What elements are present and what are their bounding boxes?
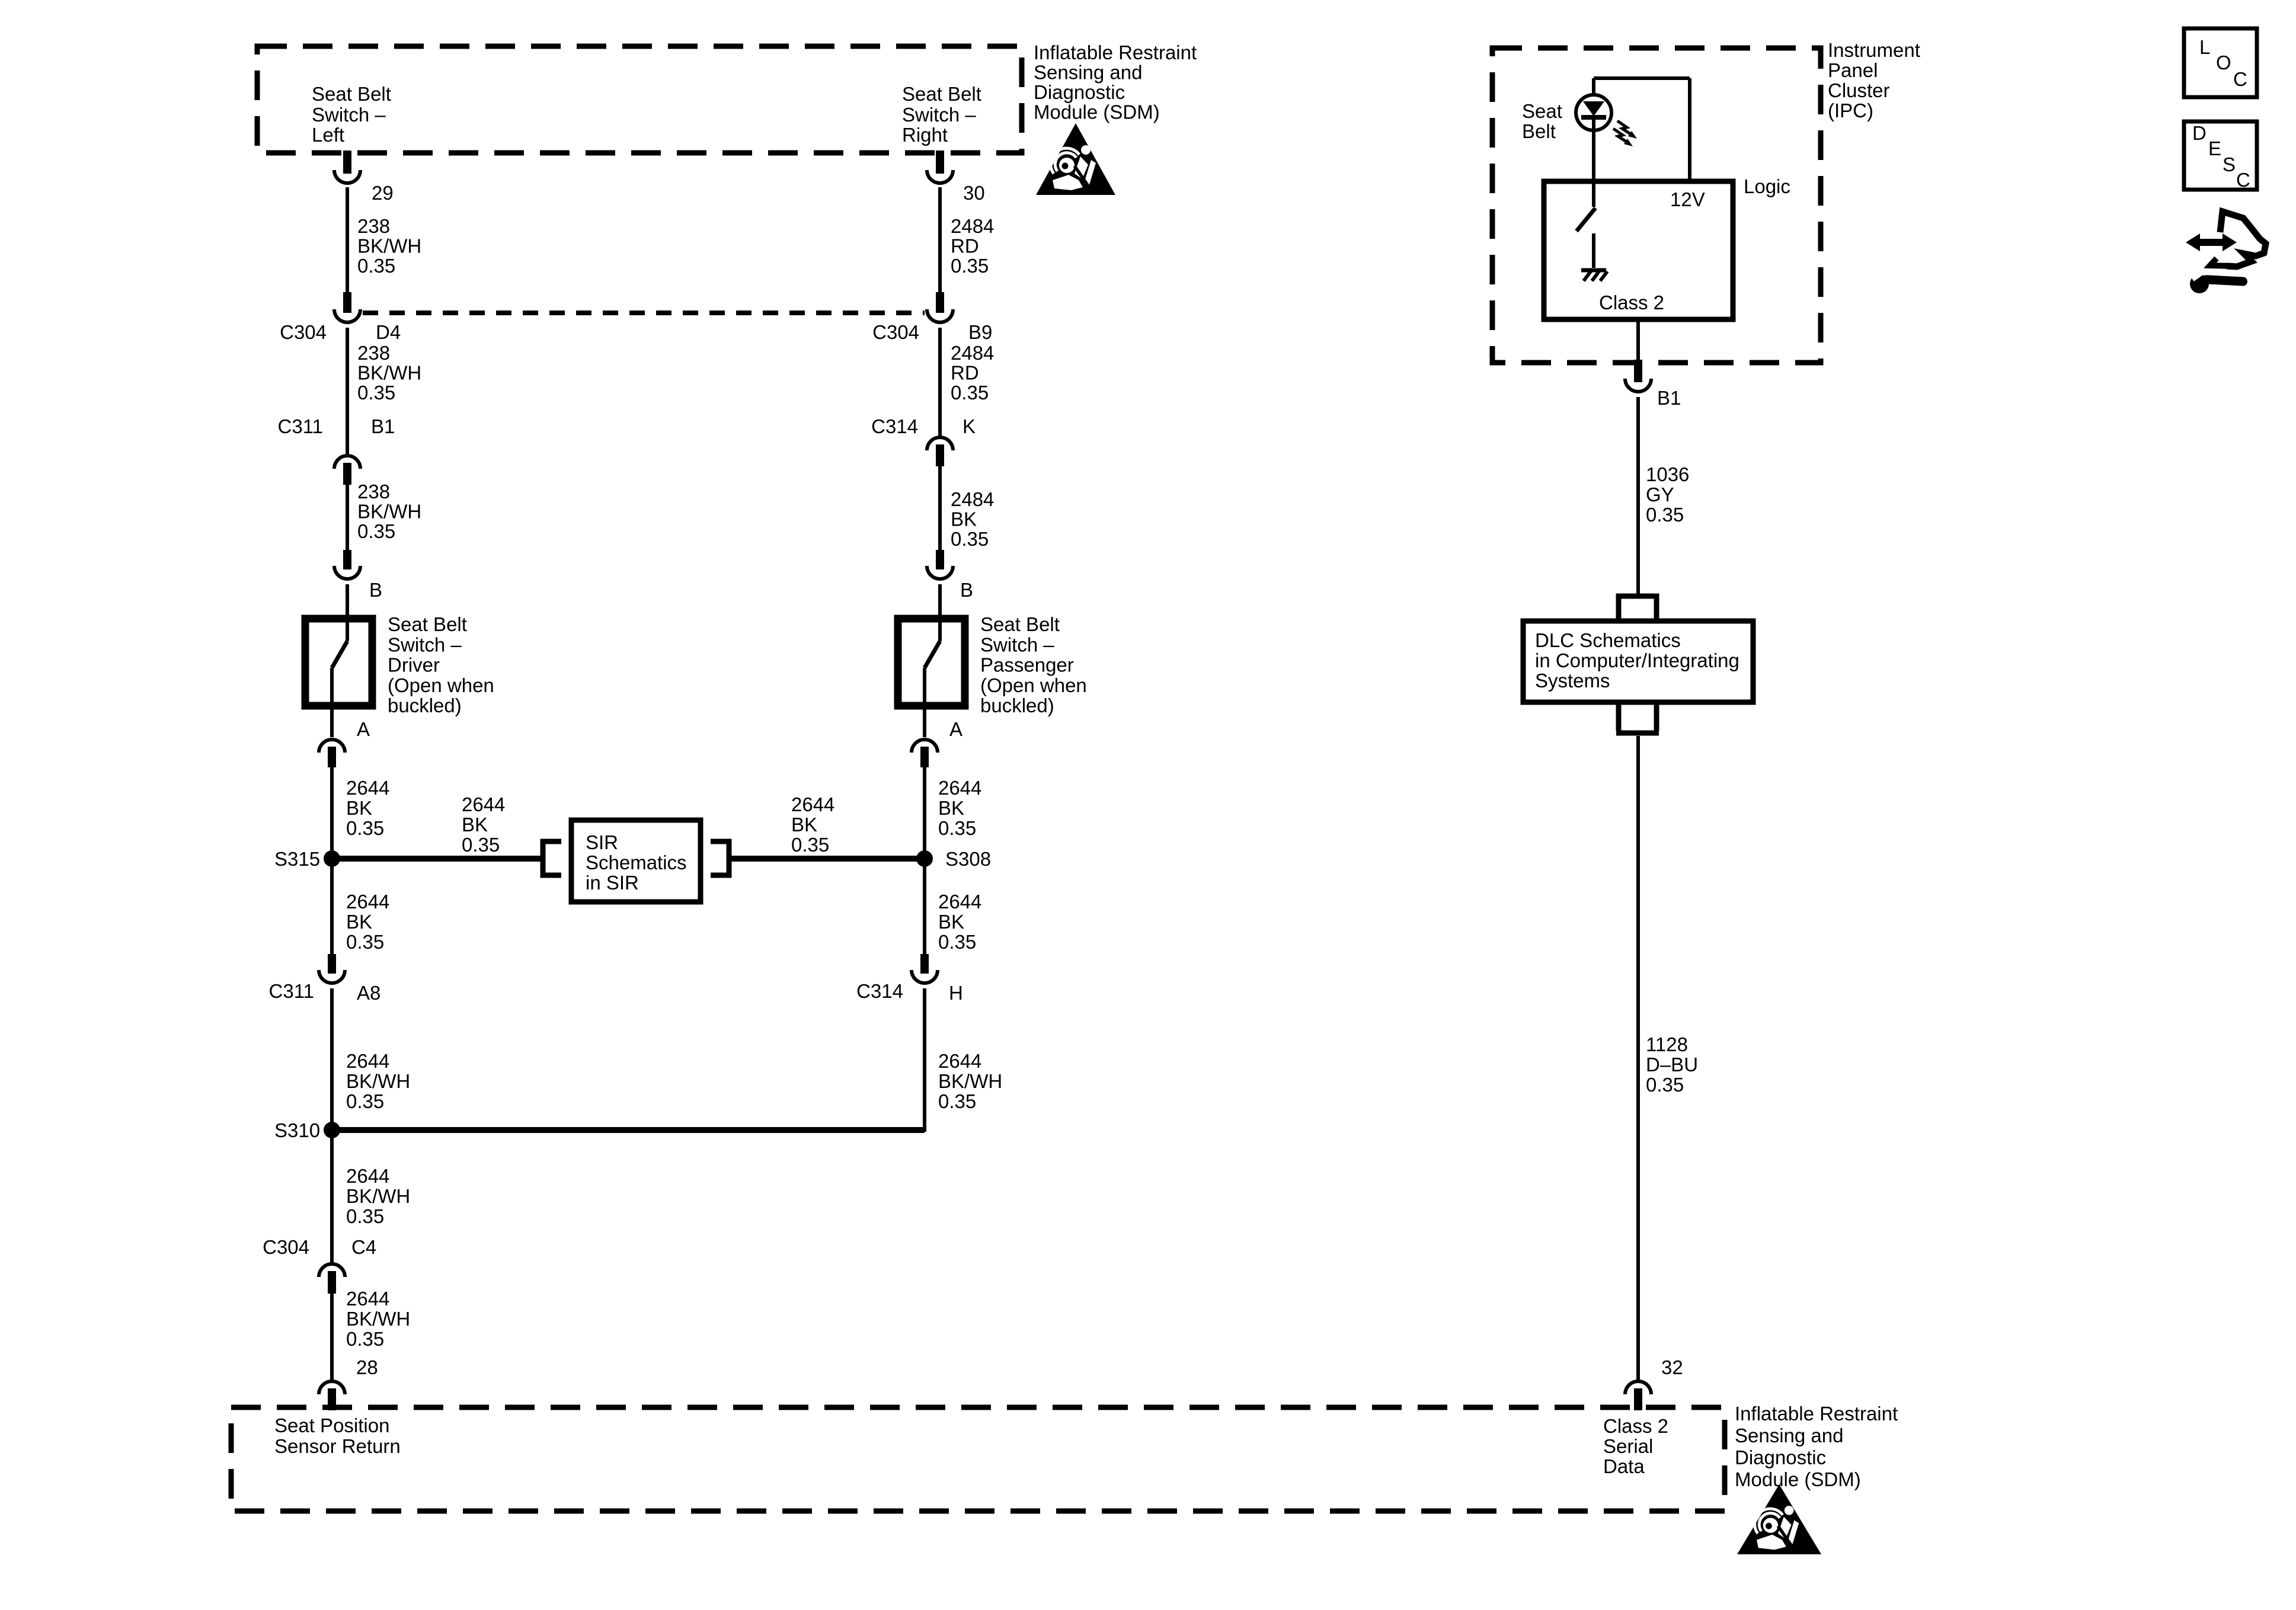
- svg-text:C304: C304: [263, 1236, 309, 1258]
- svg-text:Passenger: Passenger: [980, 654, 1074, 676]
- svg-text:RD: RD: [951, 362, 979, 384]
- svg-text:GY: GY: [1646, 484, 1674, 505]
- svg-text:Seat Belt: Seat Belt: [312, 83, 391, 105]
- svg-text:BK/WH: BK/WH: [346, 1070, 410, 1092]
- svg-text:Switch –: Switch –: [980, 633, 1054, 655]
- svg-text:buckled): buckled): [980, 694, 1054, 716]
- svg-text:0.35: 0.35: [346, 931, 384, 953]
- svg-text:S310: S310: [274, 1119, 320, 1141]
- svg-text:0.35: 0.35: [951, 382, 989, 404]
- svg-text:D: D: [2192, 122, 2207, 144]
- svg-text:in Computer/Integrating: in Computer/Integrating: [1535, 649, 1739, 671]
- svg-text:Driver: Driver: [388, 654, 440, 676]
- svg-text:1128: 1128: [1646, 1033, 1688, 1055]
- svg-text:0.35: 0.35: [346, 1090, 384, 1112]
- svg-text:0.35: 0.35: [951, 528, 989, 550]
- svg-text:28: 28: [356, 1356, 378, 1378]
- svg-text:BK: BK: [938, 797, 964, 819]
- svg-text:238: 238: [357, 481, 390, 502]
- svg-text:32: 32: [1661, 1356, 1683, 1378]
- svg-text:L: L: [2199, 36, 2210, 58]
- svg-text:C: C: [2233, 68, 2247, 90]
- svg-text:S308: S308: [945, 848, 991, 870]
- svg-text:2484: 2484: [951, 488, 994, 510]
- svg-text:Switch –: Switch –: [902, 104, 976, 126]
- svg-text:0.35: 0.35: [357, 382, 395, 404]
- svg-text:Serial: Serial: [1603, 1435, 1653, 1457]
- svg-text:Data: Data: [1603, 1455, 1645, 1477]
- svg-text:in SIR: in SIR: [586, 872, 639, 894]
- svg-text:Seat Position: Seat Position: [274, 1414, 389, 1436]
- svg-text:0.35: 0.35: [357, 255, 395, 277]
- svg-text:1036: 1036: [1646, 463, 1689, 485]
- svg-text:2644: 2644: [791, 793, 834, 815]
- svg-text:D4: D4: [376, 321, 401, 343]
- svg-text:BK: BK: [346, 797, 372, 819]
- svg-text:Systems: Systems: [1535, 670, 1610, 692]
- svg-text:Cluster: Cluster: [1828, 79, 1890, 101]
- svg-text:Seat Belt: Seat Belt: [388, 613, 467, 635]
- svg-text:29: 29: [372, 182, 394, 204]
- svg-text:BK: BK: [938, 911, 964, 933]
- svg-text:C311: C311: [278, 415, 323, 437]
- svg-text:Switch –: Switch –: [312, 104, 386, 126]
- svg-text:D–BU: D–BU: [1646, 1054, 1698, 1076]
- svg-text:BK/WH: BK/WH: [357, 235, 421, 257]
- svg-text:BK/WH: BK/WH: [938, 1070, 1002, 1092]
- svg-text:Left: Left: [312, 124, 344, 146]
- svg-text:0.35: 0.35: [938, 931, 976, 953]
- svg-text:12V: 12V: [1670, 188, 1705, 210]
- svg-text:BK/WH: BK/WH: [346, 1308, 410, 1330]
- svg-text:Diagnostic: Diagnostic: [1034, 81, 1125, 103]
- svg-text:0.35: 0.35: [357, 520, 395, 542]
- svg-text:0.35: 0.35: [938, 1090, 976, 1112]
- svg-text:2644: 2644: [346, 1288, 389, 1310]
- svg-text:A: A: [357, 718, 370, 740]
- svg-text:C311: C311: [269, 980, 314, 1002]
- svg-text:buckled): buckled): [388, 694, 462, 716]
- svg-text:Sensing and: Sensing and: [1735, 1425, 1843, 1446]
- svg-text:(IPC): (IPC): [1828, 100, 1873, 121]
- svg-text:C: C: [2236, 169, 2250, 191]
- svg-text:BK: BK: [462, 814, 488, 836]
- svg-text:(Open when: (Open when: [980, 674, 1087, 696]
- svg-text:(Open when: (Open when: [388, 674, 494, 696]
- svg-text:0.35: 0.35: [346, 1328, 384, 1350]
- svg-text:Seat: Seat: [1522, 100, 1562, 122]
- svg-text:2484: 2484: [951, 342, 994, 364]
- svg-text:2644: 2644: [462, 793, 505, 815]
- svg-text:B9: B9: [968, 321, 992, 343]
- svg-text:0.35: 0.35: [346, 817, 384, 839]
- svg-text:Sensing and: Sensing and: [1034, 62, 1142, 84]
- svg-text:Right: Right: [902, 124, 948, 146]
- svg-text:2644: 2644: [346, 1165, 389, 1187]
- svg-text:Class 2: Class 2: [1603, 1415, 1668, 1437]
- svg-text:2644: 2644: [346, 1050, 389, 1072]
- svg-text:S: S: [2223, 153, 2236, 175]
- svg-text:C4: C4: [351, 1236, 376, 1258]
- svg-text:B1: B1: [1657, 387, 1681, 409]
- svg-text:A: A: [949, 718, 962, 740]
- svg-text:2644: 2644: [346, 891, 389, 913]
- svg-text:BK: BK: [951, 508, 977, 530]
- svg-text:Sensor Return: Sensor Return: [274, 1435, 401, 1457]
- svg-text:C314: C314: [871, 415, 918, 437]
- svg-text:DLC Schematics: DLC Schematics: [1535, 629, 1681, 651]
- svg-text:C314: C314: [856, 980, 903, 1002]
- svg-text:B: B: [960, 579, 973, 601]
- svg-text:Module (SDM): Module (SDM): [1034, 101, 1160, 123]
- svg-text:SIR: SIR: [586, 831, 618, 853]
- svg-text:2484: 2484: [951, 215, 994, 237]
- svg-text:K: K: [962, 415, 976, 437]
- svg-text:Logic: Logic: [1744, 175, 1790, 197]
- svg-text:0.35: 0.35: [1646, 1074, 1684, 1096]
- svg-text:2644: 2644: [346, 777, 389, 799]
- svg-text:0.35: 0.35: [346, 1205, 384, 1227]
- svg-text:S315: S315: [274, 848, 320, 870]
- svg-text:Class 2: Class 2: [1599, 292, 1664, 313]
- svg-text:Seat Belt: Seat Belt: [980, 613, 1060, 635]
- svg-text:Inflatable Restraint: Inflatable Restraint: [1034, 41, 1197, 63]
- svg-text:O: O: [2216, 52, 2231, 73]
- svg-text:BK: BK: [791, 814, 817, 836]
- svg-text:BK/WH: BK/WH: [357, 501, 421, 523]
- svg-text:Switch –: Switch –: [388, 633, 462, 655]
- svg-text:Belt: Belt: [1522, 120, 1556, 142]
- svg-text:Panel: Panel: [1828, 59, 1878, 81]
- svg-text:B1: B1: [371, 415, 395, 437]
- svg-text:A8: A8: [357, 982, 380, 1004]
- svg-text:BK/WH: BK/WH: [346, 1185, 410, 1207]
- svg-text:BK/WH: BK/WH: [357, 362, 421, 384]
- svg-text:Schematics: Schematics: [586, 852, 687, 873]
- svg-text:Module (SDM): Module (SDM): [1735, 1468, 1861, 1490]
- svg-text:C304: C304: [280, 321, 327, 343]
- svg-text:0.35: 0.35: [951, 255, 989, 277]
- svg-text:C304: C304: [872, 321, 919, 343]
- svg-text:30: 30: [963, 182, 985, 204]
- svg-text:Inflatable Restraint: Inflatable Restraint: [1735, 1403, 1898, 1425]
- svg-text:B: B: [369, 579, 382, 601]
- svg-text:0.35: 0.35: [1646, 504, 1684, 526]
- svg-text:RD: RD: [951, 235, 979, 257]
- svg-text:Seat Belt: Seat Belt: [902, 83, 981, 105]
- svg-text:238: 238: [357, 342, 390, 364]
- svg-text:H: H: [949, 982, 963, 1004]
- svg-text:2644: 2644: [938, 777, 981, 799]
- svg-text:BK: BK: [346, 911, 372, 933]
- svg-text:2644: 2644: [938, 1050, 981, 1072]
- svg-text:2644: 2644: [938, 891, 981, 913]
- svg-text:Instrument: Instrument: [1828, 39, 1920, 61]
- svg-text:0.35: 0.35: [938, 817, 976, 839]
- svg-text:0.35: 0.35: [462, 834, 500, 856]
- svg-text:238: 238: [357, 215, 390, 237]
- svg-text:Diagnostic: Diagnostic: [1735, 1446, 1826, 1468]
- svg-text:0.35: 0.35: [791, 834, 829, 856]
- svg-text:E: E: [2208, 137, 2221, 159]
